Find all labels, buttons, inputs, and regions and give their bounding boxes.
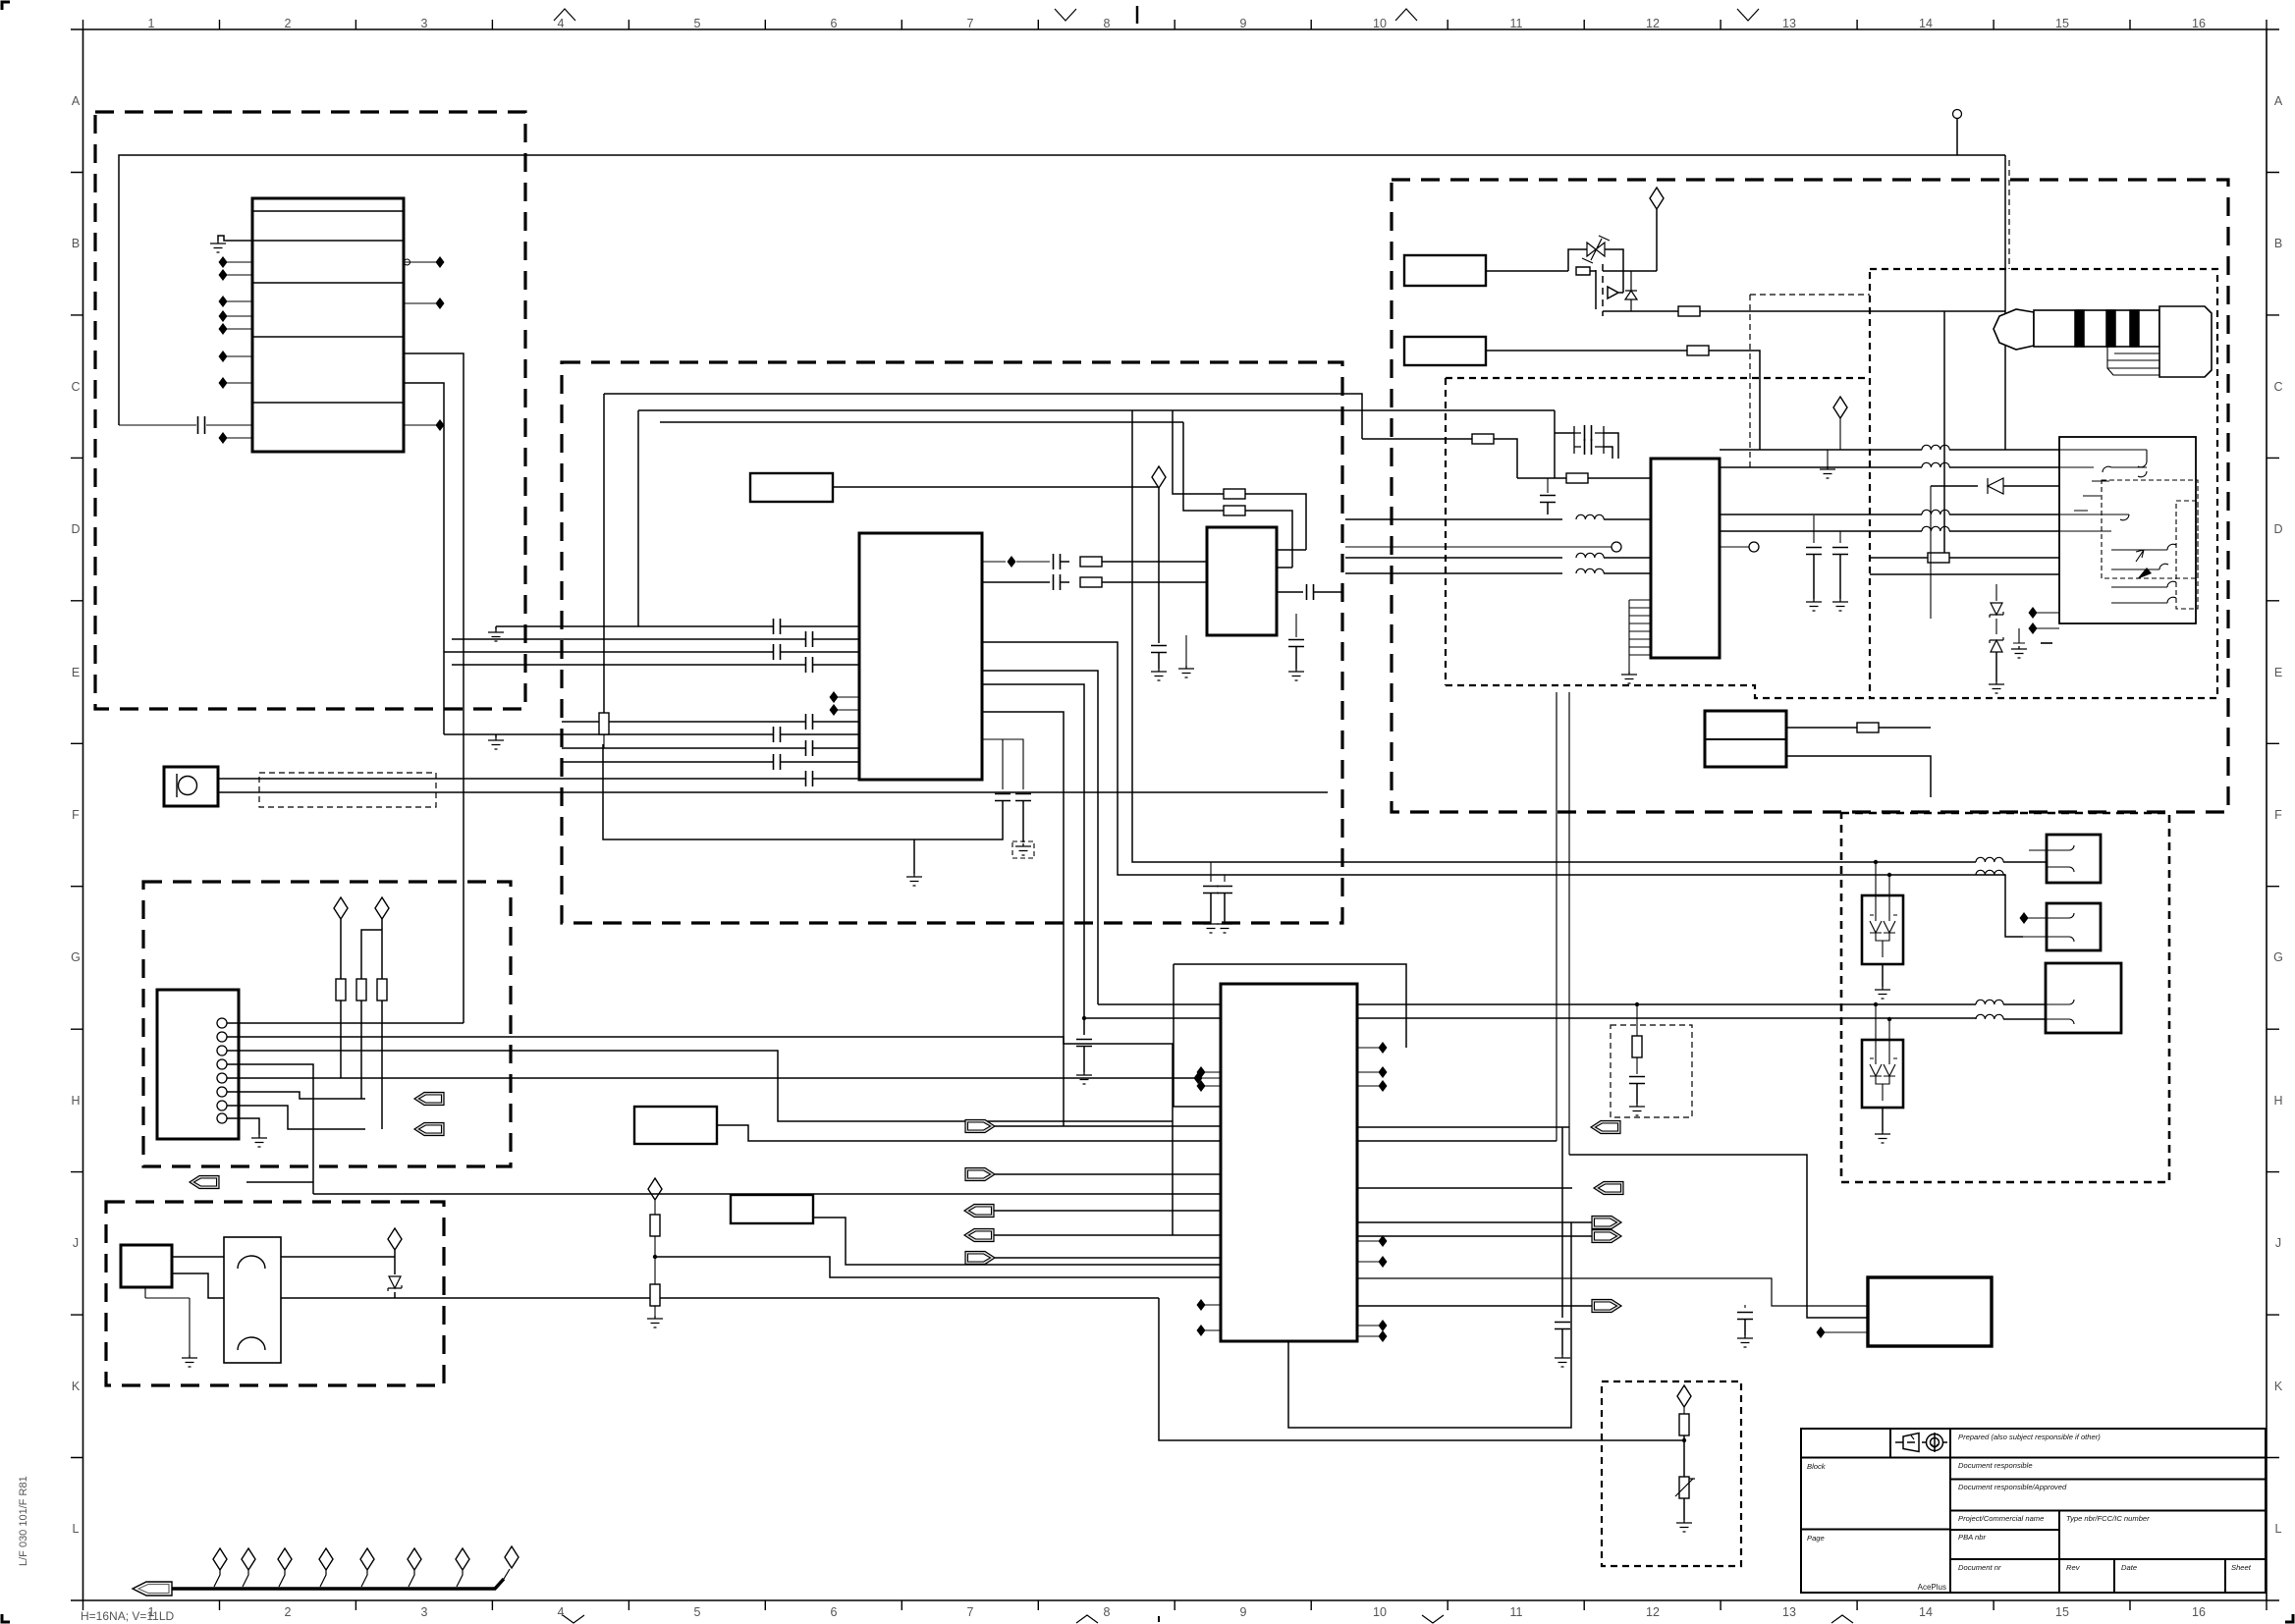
wire: thermistor sense long run [1159, 1298, 1684, 1440]
net tag RX2 [964, 1229, 994, 1242]
ground G11 [1076, 1072, 1092, 1084]
plug lead lines [2107, 347, 2159, 368]
inductor FB8 (earpiece line A) [1976, 857, 2003, 862]
wire: loudspeaker line B long run [1084, 1017, 1976, 1019]
capacitor C9 (mic line 4) [774, 754, 781, 770]
label box L3 (VBAT net) [1404, 337, 1486, 365]
svg-text:C: C [71, 380, 80, 394]
ground G8 [1288, 669, 1304, 680]
capacitor C24 (earpiece line B filter) [1224, 875, 1226, 882]
svg-text:7: 7 [967, 17, 974, 30]
net tag ROW0 (below block) [190, 1176, 219, 1189]
net tag CLK [965, 1252, 995, 1265]
svg-text:3: 3 [421, 17, 428, 30]
svg-text:4: 4 [558, 17, 565, 30]
wire: X2 battery sense [1786, 756, 1931, 797]
wire: nested loop 3 [660, 421, 1183, 423]
dotted speaker block boundary [1841, 813, 2169, 1182]
ground G20 [1737, 1335, 1753, 1347]
inductor FB11 (speaker line B) [1976, 1014, 2003, 1019]
svg-text:H: H [2273, 1094, 2282, 1108]
ground G2 on supply line [495, 626, 497, 629]
ground G15 (shield) [1827, 450, 1829, 466]
resistor R18 (divider top) [650, 1215, 660, 1236]
svg-text:F: F [2274, 808, 2282, 822]
wire: N2 ground leg [145, 1287, 190, 1355]
TITLEBLOCK [1801, 1429, 2266, 1593]
ground G18 [1875, 987, 1890, 999]
ground G23 [647, 1316, 663, 1327]
zener diode D1 [394, 1257, 396, 1274]
svg-text:10: 10 [1373, 17, 1387, 30]
supply diamond V6 [1833, 397, 1847, 418]
wire: right rail with filter [1561, 1127, 1563, 1318]
resistor R6 [1061, 581, 1069, 583]
wire: tag ROW0 riser [246, 1181, 313, 1183]
wire: backup cell second pin [1357, 1278, 1868, 1306]
svg-text:2: 2 [285, 17, 292, 30]
svg-text:9: 9 [1240, 1605, 1247, 1619]
net tag OUT2 [1594, 1182, 1623, 1195]
ground G19 [1875, 1131, 1890, 1143]
svg-text:Block: Block [1807, 1462, 1827, 1471]
svg-text:B: B [72, 237, 80, 250]
ground G10 [1015, 843, 1031, 855]
resistor R5 [1061, 561, 1069, 563]
svg-text:3: 3 [421, 1605, 428, 1619]
ground pin of N1 [218, 236, 252, 241]
dashed connector block boundary [143, 882, 511, 1166]
jack plunger arrow [2137, 568, 2152, 579]
bottom-center dotted thermistor block [1602, 1381, 1741, 1566]
wire: ground tap [913, 839, 915, 874]
resistor R7 (feedback upper) [1173, 410, 1224, 494]
loudspeaker SP3 [2046, 963, 2121, 1033]
wire: M1 + rail with supply diamond [281, 1249, 395, 1257]
capacitor C12 (V4 decoupling) [1151, 646, 1167, 653]
plug housing [2159, 306, 2212, 377]
wire: U3 sense net to right rail [1357, 1140, 1557, 1142]
svg-text:Type nbr/FCC/IC number: Type nbr/FCC/IC number [2066, 1514, 2150, 1523]
capacitor C6 (mic line 1) [806, 714, 813, 730]
svg-text:16: 16 [2192, 17, 2206, 30]
N1 right pins with diamonds [404, 262, 437, 425]
svg-text:Document responsible/Approved: Document responsible/Approved [1958, 1483, 2067, 1491]
IC U1 (audio DSP) [859, 533, 982, 780]
svg-text:5: 5 [694, 17, 701, 30]
wire: X1 pin1 to N1 net [227, 1022, 464, 1024]
wire: left bus into U3 (pin4 net) [313, 1193, 1221, 1195]
reference stub into U5 [1824, 1331, 1868, 1333]
wire: codec outputs to jack with inductor FB4 [1720, 449, 1922, 451]
U3 left reference stubs [1204, 1072, 1221, 1330]
capacitor C8 (mic line 3) [806, 740, 813, 756]
capacitor C23 (earpiece line A filter) [1210, 862, 1212, 882]
svg-text:12: 12 [1646, 17, 1660, 30]
svg-text:J: J [2275, 1236, 2281, 1250]
ground G21 [1676, 1520, 1692, 1532]
wire: loop from left edge [603, 394, 605, 713]
IC U3 (baseband processor) [1221, 984, 1357, 1341]
connector X1 pin circles [217, 1018, 227, 1028]
svg-text:H: H [71, 1094, 80, 1108]
pin circle P1 [1345, 546, 1612, 548]
wire: N2 to M1 [172, 1257, 224, 1298]
ground G13 [1806, 599, 1822, 611]
crystal/cap pair B1 [1574, 425, 1604, 455]
ground G22 [1629, 1104, 1645, 1115]
company logo (target glyph) [1922, 1433, 1947, 1452]
jack internal dashed frames [2102, 480, 2198, 578]
wire: divider tap to U3 [655, 1257, 1221, 1277]
wire: X1 pin3 long run to U3 [227, 1051, 1173, 1121]
svg-text:7: 7 [967, 1605, 974, 1619]
thin dashed net line (headset detect) [1750, 295, 1870, 471]
ESD suppressor Z3 (gate-source) [1568, 249, 1623, 271]
wire: U1 loudspeaker output B [982, 684, 1084, 1035]
wire: N1 bottom-right outputs routed down [404, 353, 464, 1023]
svg-text:AcePlus: AcePlus [1918, 1583, 1946, 1592]
capacitor C20 (codec filter) [1839, 531, 1841, 543]
svg-text:C: C [2273, 380, 2282, 394]
capacitor C15 (U1 bottom decoupling) [1002, 739, 1004, 789]
capacitor C16 (U1 bottom decoupling) [982, 739, 1023, 789]
ground G3 on mic bias line [495, 734, 497, 737]
net tag TX1 [965, 1120, 995, 1133]
svg-text:D: D [71, 522, 80, 536]
wire: mic- [218, 791, 1328, 793]
ground G9 [906, 874, 922, 886]
ground G26 [1555, 1355, 1570, 1367]
capacitor C13 (U2 output) [1277, 591, 1303, 593]
svg-text:H=16NA; V=11LD: H=16NA; V=11LD [81, 1609, 175, 1623]
wire: nested loop 2 [638, 410, 1555, 626]
dashed RC island [1611, 1025, 1692, 1117]
svg-text:14: 14 [1919, 1605, 1933, 1619]
dashed vibra block boundary [106, 1202, 444, 1385]
inductor FB10 (speaker line A) [1976, 1000, 2003, 1004]
resistor R3 [377, 979, 387, 1001]
svg-text:15: 15 [2055, 17, 2069, 30]
label box L4 (RTC) [634, 1107, 717, 1144]
svg-text:PBA nbr: PBA nbr [1958, 1533, 1986, 1542]
ground G6 [1151, 669, 1167, 680]
net tag KEY1 [414, 1093, 444, 1106]
svg-text:12: 12 [1646, 1605, 1660, 1619]
wire: mic+ [218, 778, 805, 780]
resistor R16 [1679, 1414, 1689, 1435]
ground G17 (jack shield) [2013, 628, 2025, 643]
net tag TX2 [965, 1168, 995, 1181]
capacitor C10 [1054, 554, 1061, 569]
inductor FB7 [1720, 530, 1922, 532]
wire: U3 uplink net [1357, 1126, 1569, 1128]
capacitor C3 (input line 2) [806, 631, 813, 647]
wire: continuation of top net down right [2004, 155, 2006, 450]
inductor FB1 [1345, 518, 1562, 520]
plug contact bands [2075, 310, 2084, 347]
resistor R13 (codec bias) [1566, 473, 1588, 483]
inductor FB3 [1345, 572, 1562, 574]
capacitor C5 (input line 4) [806, 657, 813, 673]
wire: battery rails down to U5/tags [1557, 692, 1569, 1155]
svg-text:Rev: Rev [2066, 1563, 2081, 1572]
wire: U3 bottom net looped to OUT3 rail [1288, 1222, 1571, 1428]
capacitor C21 (in RC island) [1636, 1057, 1638, 1074]
capacitor C2 (input line 1) [774, 619, 781, 634]
dashed block boundary (energy management) [95, 112, 525, 709]
supply diamond V4 [1152, 466, 1166, 488]
dashed audio block boundary [562, 362, 1342, 923]
svg-text:5: 5 [694, 1605, 701, 1619]
N1 left pins with off-sheet diamonds [226, 262, 252, 438]
U1 reference stubs with diamonds [837, 697, 859, 710]
wire: long input bus into U3 [756, 1154, 1221, 1156]
svg-text:B: B [2274, 237, 2282, 250]
resistor R2 [356, 979, 366, 1001]
title block grid [1801, 1429, 2266, 1593]
svg-text:Date: Date [2121, 1563, 2137, 1572]
dashed ground island [1012, 841, 1034, 858]
svg-text:K: K [72, 1380, 81, 1393]
wire: M1 return long run [281, 1292, 1159, 1298]
thin dashed net line (top) [2008, 160, 2010, 269]
wire: B1 to codec [1555, 410, 1618, 478]
supply diamond V8 [648, 1178, 662, 1200]
capacitor C19 (codec filter) [1813, 515, 1815, 543]
wire: X1 pin4 routed down [227, 1064, 313, 1194]
svg-text:F: F [72, 808, 80, 822]
wire: nested loop 1 (U1 out to right) [604, 394, 1362, 439]
svg-text:L/F 030 101/F R81: L/F 030 101/F R81 [18, 1476, 29, 1566]
label box L5 (osc) [731, 1195, 813, 1223]
capacitor C18 (bias filter) [1547, 478, 1549, 493]
IC U2 (audio amplifier) [1207, 527, 1277, 635]
svg-text:L: L [2275, 1522, 2282, 1536]
resistor R4 (bias, on left rail) [603, 712, 605, 748]
svg-text:8: 8 [1104, 17, 1111, 30]
ground G5 [182, 1355, 197, 1367]
supply diamond V7 [1677, 1385, 1691, 1407]
svg-text:D: D [2273, 522, 2282, 536]
inductor FB9 (earpiece line B) [1976, 870, 2003, 875]
wire: VBAT line with resistor R11 [1486, 350, 1687, 352]
net tag OUT5 [1592, 1300, 1621, 1313]
driver N2 [121, 1245, 172, 1287]
wire: U1 analog ground loop [603, 744, 1003, 839]
wire: U1 outputs routed down to earpiece nets [1132, 410, 1976, 862]
wire: V1 to pull-up resistor [340, 919, 342, 982]
title block labels [1807, 1433, 2252, 1592]
wire: mid bus into U3 [452, 1277, 1221, 1279]
svg-text:15: 15 [2055, 1605, 2069, 1619]
dotted headset sub-block [1870, 269, 2217, 698]
svg-text:G: G [71, 950, 81, 964]
wire: jack mic net [1870, 573, 2059, 575]
IC U4 (headset codec / detector) [1651, 459, 1720, 658]
thermistor RT1 [1675, 1477, 1695, 1498]
wire: U1 loudspeaker output A [982, 671, 1098, 1004]
svg-text:E: E [2274, 666, 2282, 679]
supply diamond V1 [334, 897, 348, 919]
net tag OUT1 [1591, 1121, 1620, 1134]
svg-text:A: A [72, 94, 81, 108]
wire: U1 output to tag column [982, 712, 1064, 1126]
jack reference stubs [2036, 613, 2059, 628]
net tag OUT4 [1592, 1230, 1621, 1243]
wire: top long net from N1 loop [119, 155, 2005, 425]
resistor R8 (feedback lower) [1183, 422, 1224, 511]
wire: L5 to U3 [813, 1218, 1221, 1265]
ground G14 [1832, 599, 1848, 611]
bus spine [172, 1579, 504, 1589]
wire: X1 pin2 long run to U3 [227, 1037, 1173, 1235]
dashed accessory block boundary [1392, 180, 2228, 812]
headphone plug (tip) [1994, 309, 2034, 350]
wire: U1 out pin with diamond to RC filter row 1 [982, 561, 1050, 563]
svg-text:K: K [2274, 1380, 2283, 1393]
bus riser diamonds [214, 1569, 510, 1587]
svg-text:Project/Commercial name: Project/Commercial name [1958, 1514, 2044, 1523]
capacitor C7 (mic line 2) [774, 727, 781, 742]
svg-text:8: 8 [1104, 1605, 1111, 1619]
svg-text:11: 11 [1510, 1605, 1523, 1619]
TVS array Z2 [1862, 1040, 1903, 1108]
resistor R19 (divider bottom) [650, 1284, 660, 1306]
wire: codec input from audio block [1362, 438, 1472, 440]
svg-text:Prepared (also subject respons: Prepared (also subject responsible if ot… [1958, 1433, 2101, 1441]
reference stub into SP2 [2027, 917, 2047, 919]
svg-text:J: J [73, 1236, 79, 1250]
wire: L4 to U3 [717, 1125, 1221, 1141]
supply diamond V3 [388, 1228, 402, 1250]
resistor R1 [336, 979, 346, 1001]
resistor R9 (gate) [1486, 270, 1568, 272]
svg-text:6: 6 [831, 1605, 838, 1619]
svg-text:1: 1 [148, 17, 155, 30]
wire: R1 bottom to pin5 net [340, 1001, 342, 1078]
wire: V2 to pull-up resistors [361, 919, 382, 982]
net tag OUT3 [1592, 1217, 1621, 1229]
svg-text:Document nr: Document nr [1958, 1563, 2001, 1572]
TVS array Z1 [1862, 895, 1903, 964]
net tag KEY2 [414, 1123, 444, 1136]
TVS zener pair D4 [1995, 584, 1997, 601]
receiver SP2 [2047, 903, 2101, 950]
wire: RTC supply net [1569, 1155, 1868, 1318]
capacitor C17 (filter) [1076, 1040, 1092, 1047]
svg-text:Sheet: Sheet [2231, 1563, 2252, 1572]
wire: X1 pin5 long run to U3 with diamond [227, 1077, 1195, 1079]
wire: X1 pin8 to ground [227, 1118, 259, 1135]
IC N1 (regulator bank) [252, 198, 404, 452]
wire: X1 pin6 to net tag and U3 [227, 1092, 365, 1099]
capacitor C11 [982, 581, 1050, 583]
supply diamond V2 [375, 897, 389, 919]
diode D3 (detect clamp) [1931, 485, 2059, 487]
svg-text:9: 9 [1240, 17, 1247, 30]
wire: L1 output to supply diamond net [833, 486, 1159, 488]
transistor Q1 (PMOS load switch) [1596, 264, 1631, 316]
wire: audio supply lines into codec block [444, 626, 805, 665]
svg-text:2: 2 [285, 1605, 292, 1619]
svg-text:11: 11 [1510, 17, 1523, 30]
svg-text:13: 13 [1782, 1605, 1796, 1619]
wire: Q1 drain line with resistor R10 [1631, 310, 1678, 312]
svg-text:E: E [72, 666, 80, 679]
label box L2 (charger net) [1404, 255, 1486, 286]
wire: loudspeaker line A long run [1098, 1003, 1976, 1005]
fold marks [554, 6, 1853, 1623]
U3 right stubs with diamonds [1357, 1048, 1380, 1336]
ground G16 [1989, 681, 2004, 693]
capacitor C9b (mic+ line) [806, 771, 813, 786]
ground G12 [1621, 672, 1637, 683]
resistor R12 [1472, 434, 1494, 444]
company logo (soldering-iron glyph) [1895, 1434, 1919, 1452]
U4 pin ladder [1629, 600, 1651, 672]
ground G25 [1217, 921, 1232, 933]
wire: X2 temp sense with resistor R15 [1786, 727, 1857, 729]
inductor FB5 [1720, 466, 1922, 468]
capacitor C1 (series in N1 feedback wire) [119, 424, 252, 426]
wire: U3 downlink net [1357, 1187, 1572, 1189]
svg-text:4: 4 [558, 1605, 565, 1619]
dashed net region around mic lines [259, 773, 436, 807]
wire: X1 pin7 routed to net tag [227, 1106, 365, 1129]
net tag RX1 [964, 1205, 994, 1218]
wire: R2 bottom to tag KEY1 net [360, 1001, 362, 1099]
wire: second earpiece net [982, 642, 2023, 937]
capacitor C14 (U2 bypass) [1295, 614, 1297, 637]
wire: R3 bottom to tag KEY2 net [381, 1001, 383, 1129]
svg-text:16: 16 [2192, 1605, 2206, 1619]
svg-text:10: 10 [1373, 1605, 1387, 1619]
pin circle P2 [1720, 546, 1749, 548]
battery connector X2 [1705, 711, 1786, 767]
ground G7 [1178, 666, 1194, 677]
supply diamond V5 [1650, 188, 1664, 209]
receiver SP1 [2047, 835, 2101, 883]
microphone MIC1 [164, 767, 218, 806]
label box L1 (clock module) [750, 473, 833, 502]
capacitor C25 (rail filter) [1555, 1323, 1570, 1329]
wire: V5 rail to Q1 source [1623, 209, 1657, 271]
wire: U2 gnd pin [1185, 635, 1187, 666]
svg-text:6: 6 [831, 17, 838, 30]
ground G24 [1203, 921, 1219, 933]
svg-text:14: 14 [1919, 17, 1933, 30]
ground G4 [251, 1135, 267, 1147]
IC N1 internal section lines [252, 211, 404, 403]
svg-text:Page: Page [1807, 1534, 1825, 1543]
headphone plug (sleeve body) [2034, 310, 2159, 347]
resistor R17 (in RC island) [1636, 1004, 1638, 1036]
wire: V4 rail down to decoupling cap [1158, 488, 1160, 643]
capacitor C4 (input line 3) [774, 644, 781, 660]
vibra motor M1 [224, 1237, 281, 1363]
wire: loop above U3 [1174, 964, 1406, 1107]
svg-text:G: G [2273, 950, 2283, 964]
svg-text:13: 13 [1782, 17, 1796, 30]
inductor FB2 [1345, 557, 1562, 559]
svg-text:L: L [73, 1522, 80, 1536]
dotted codec sub-block [1446, 378, 1870, 698]
body diode D2 of Q1 [1630, 271, 1632, 311]
capacitor C22 [1744, 1305, 1746, 1308]
connector X1 (SIM/keypad) [157, 990, 239, 1139]
svg-text:A: A [2274, 94, 2283, 108]
